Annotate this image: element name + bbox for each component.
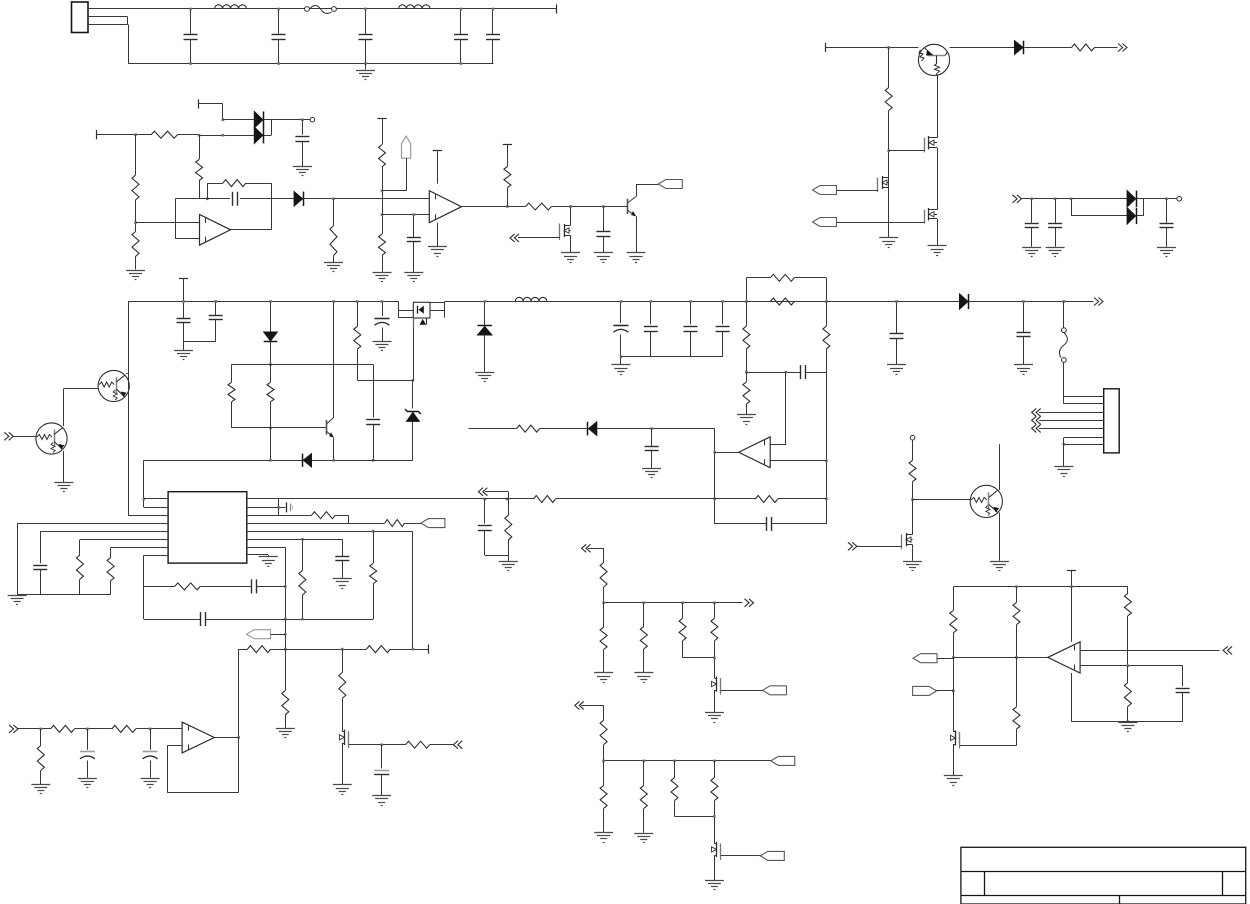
capacitor CX1: [184, 8, 198, 65]
node: [825, 498, 828, 501]
pin4 wire: [17, 524, 168, 595]
resistor R51: [950, 587, 957, 658]
terminal circle: [310, 117, 315, 122]
wire in6a: [1080, 650, 1219, 652]
ground: [594, 833, 613, 843]
node: [86, 728, 89, 731]
resistor R22: [76, 540, 83, 595]
node: [372, 459, 375, 462]
capacitor C28 pol: [80, 729, 95, 778]
wire: [778, 498, 827, 500]
wire: [552, 206, 623, 208]
wire bottom rail: [128, 63, 493, 65]
node: [650, 427, 653, 430]
capacitor C20: [716, 300, 730, 357]
pin wire: [1039, 412, 1104, 414]
wire: [950, 47, 1015, 49]
wire gndbus: [17, 594, 111, 596]
chevron out: [745, 599, 754, 607]
wire link2: [1137, 199, 1144, 216]
capacitor C18: [644, 300, 658, 357]
wire: [825, 47, 918, 49]
ground: [428, 247, 447, 257]
wire: [715, 498, 756, 500]
resistor R32: [51, 725, 75, 732]
wire inv2: [382, 214, 430, 216]
node: [380, 743, 383, 746]
node: [825, 460, 828, 463]
resistor R48: [671, 761, 714, 817]
capacitor C8: [407, 213, 421, 272]
capacitor C32: [1176, 689, 1190, 722]
wire: [135, 200, 137, 232]
wire: [826, 372, 828, 524]
wire bot6: [1072, 721, 1183, 723]
wire: [74, 728, 111, 730]
capacitor C15: [366, 365, 380, 461]
node: [1015, 585, 1018, 588]
ground: [903, 562, 922, 571]
transistor Q4 npn: [622, 184, 637, 252]
wire gate: [518, 237, 560, 239]
ground: [31, 785, 50, 794]
wire vplus: [437, 150, 439, 183]
node: [341, 648, 344, 651]
ground: [1014, 365, 1033, 375]
resistor R43: [679, 603, 714, 658]
pin12 wire: [247, 531, 413, 649]
chevron in: [1013, 195, 1022, 203]
chevron in: [9, 725, 18, 733]
pin9 wire: [247, 554, 268, 556]
wire out: [231, 229, 272, 231]
wire: [837, 222, 925, 224]
node: [332, 198, 335, 201]
pin wire: [1039, 428, 1104, 430]
wire: [857, 546, 902, 548]
diode D8 left: [588, 422, 597, 436]
ground: [634, 834, 653, 843]
ground: [879, 238, 898, 248]
wire capjoin: [184, 342, 216, 350]
wire: [714, 693, 716, 712]
capacitor C26: [252, 579, 257, 593]
node: [713, 815, 716, 818]
node: [284, 618, 287, 621]
wire: [912, 548, 914, 561]
ground: [404, 273, 423, 282]
mosfet M5 switch: [399, 302, 445, 381]
ground: [705, 713, 724, 723]
wire: [588, 548, 604, 562]
wire main rail left: [128, 301, 399, 303]
pin wire: [1064, 437, 1104, 439]
diode D2: [294, 192, 303, 206]
op-amp U3: [739, 437, 771, 468]
capacitor C25: [335, 557, 349, 579]
node: [673, 760, 676, 763]
node: [713, 602, 716, 605]
resistor R14: [267, 365, 274, 428]
node: [887, 150, 890, 153]
wire capbus: [621, 356, 723, 358]
wire emit: [999, 513, 1001, 561]
resistor R16: [770, 274, 794, 281]
tick top: [377, 118, 386, 120]
node: [1070, 585, 1073, 588]
node: [713, 760, 716, 763]
mosfet M10: [951, 729, 960, 749]
node: [569, 205, 572, 208]
wire: [302, 539, 342, 556]
wire fb mid: [175, 198, 271, 200]
capacitor C34: [1017, 300, 1031, 364]
ground: [372, 796, 391, 806]
wire: [636, 184, 658, 186]
resistor R30: [366, 646, 390, 653]
wire: [540, 428, 589, 430]
node: [269, 363, 272, 366]
pin3 wire: [128, 515, 168, 517]
node: [269, 427, 272, 430]
node: [713, 451, 716, 454]
capacitor C9: [596, 207, 610, 253]
wire stub: [126, 373, 128, 375]
node: [381, 213, 384, 216]
pin11 wire: [247, 539, 303, 570]
ground: [611, 365, 630, 375]
wire fb top: [207, 183, 271, 199]
wire y618: [144, 619, 373, 621]
node: [134, 221, 137, 224]
wire: [714, 859, 716, 881]
wire out2: [462, 206, 526, 208]
resistor R25: [370, 531, 377, 619]
wire main rail right: [445, 301, 1094, 303]
wire: [937, 222, 939, 246]
ground: [126, 271, 145, 280]
wire: [136, 728, 182, 730]
node: [1070, 198, 1073, 201]
mosfet M9: [902, 531, 913, 549]
ground: [627, 253, 646, 263]
node: [506, 205, 509, 208]
node: [284, 585, 287, 588]
resistor R52: [1013, 587, 1020, 658]
wire gate6: [349, 744, 406, 746]
wire: [1025, 47, 1072, 49]
ground: [373, 273, 392, 282]
resistor R54: [1124, 587, 1131, 666]
pin8 wire: [144, 555, 169, 619]
wire N line (double): [88, 17, 128, 25]
ground: [642, 469, 661, 478]
capacitor C6: [295, 120, 309, 166]
wire: [135, 257, 137, 270]
node: [484, 498, 487, 501]
wire: [597, 428, 715, 430]
IC U4: [168, 492, 247, 563]
resistor R2: [132, 135, 139, 200]
mosfet M8: [712, 840, 721, 860]
wire jog: [348, 515, 350, 523]
chevron: [1032, 424, 1041, 432]
ground: [54, 483, 73, 492]
wire: [485, 492, 509, 500]
node: [301, 118, 304, 121]
wire: [570, 239, 572, 253]
wire: [714, 429, 716, 524]
node: [825, 300, 828, 303]
net flag: [421, 519, 445, 528]
wire: [469, 428, 517, 430]
resistor R55: [1124, 666, 1131, 722]
diode D1b: [254, 127, 263, 143]
wire: [430, 744, 454, 746]
resistor R46: [600, 761, 607, 832]
net flag: [813, 218, 837, 227]
wire inv: [175, 199, 199, 239]
wire sense box: [746, 278, 826, 302]
resistor R24: [299, 570, 306, 619]
capacitor C12: [1160, 199, 1174, 247]
pin16 wire: [247, 498, 485, 500]
resistor R12: [1072, 44, 1095, 51]
wire: [785, 372, 787, 445]
node: [602, 760, 605, 763]
chevron: [478, 488, 487, 496]
terminal tick: [428, 645, 430, 654]
op-amp U5: [182, 722, 214, 753]
wire coll2: [64, 389, 99, 427]
terminal circle: [1177, 197, 1182, 202]
ground: [1054, 467, 1073, 477]
node: [1165, 198, 1168, 201]
transistor Q6 npn: [326, 300, 335, 460]
capacitor C33: [890, 300, 904, 364]
net flag: [658, 180, 682, 189]
resistor R29: [248, 646, 271, 653]
wire: [581, 705, 603, 720]
chevron: [1032, 408, 1041, 416]
wire fb net: [168, 649, 239, 793]
ground: [324, 263, 343, 272]
ground: [475, 373, 494, 382]
capacitor C17 pol: [613, 300, 628, 364]
mosfet M3: [925, 151, 938, 224]
chevron out: [1094, 298, 1103, 306]
mosfet M6: [339, 728, 348, 748]
ground: [887, 365, 906, 375]
wire: [837, 190, 878, 192]
tick vplus: [433, 150, 442, 152]
pin1 wire: [144, 498, 168, 500]
pin7 wire: [111, 547, 169, 549]
fuse F1: [305, 6, 337, 14]
ground: [78, 779, 97, 788]
wire gate2: [889, 150, 925, 152]
capacitor CY1: [359, 8, 373, 65]
node: [237, 736, 240, 739]
node: [301, 618, 304, 621]
inductor LF2: [399, 5, 431, 9]
node: [149, 728, 152, 731]
pin wire: [1063, 443, 1104, 446]
wire y648: [239, 649, 429, 651]
capacitor CX3: [454, 8, 468, 65]
node: [134, 133, 137, 136]
resistor R18: [743, 302, 750, 373]
wire: [97, 134, 152, 136]
transistor Q3 opto npn: [970, 485, 1002, 517]
capacitor C16 pol: [375, 300, 390, 341]
diode D7 up: [478, 300, 492, 372]
ground: [293, 167, 312, 176]
wire: [405, 523, 421, 525]
node: [1015, 656, 1018, 659]
diode D4b: [1127, 208, 1136, 224]
capacitor C7: [233, 192, 238, 206]
resistor R20: [823, 302, 830, 373]
wire: [953, 747, 955, 775]
resistor R15: [354, 300, 361, 380]
tick: [179, 278, 188, 280]
chevron: [582, 544, 591, 552]
resistor R4: [196, 135, 203, 180]
resistor R35: [339, 649, 346, 728]
resistor R17: [770, 298, 794, 305]
resistor R45: [600, 720, 607, 761]
op-amp U6: [1048, 642, 1080, 673]
node: [745, 371, 748, 374]
resistor R21: [517, 425, 540, 432]
resistor R5: [223, 180, 246, 187]
node: [222, 134, 225, 137]
wire jog2: [277, 499, 280, 515]
wire: [270, 428, 272, 460]
resistor R28: [175, 583, 201, 590]
node: [206, 198, 209, 201]
ground: [174, 351, 193, 360]
net flag: [913, 686, 937, 695]
chevron in: [4, 432, 13, 440]
wire: [223, 119, 254, 121]
wire: [342, 747, 344, 785]
wire: [888, 111, 890, 238]
wire: [333, 256, 335, 263]
wire N drop: [128, 25, 130, 64]
transistor Q5 pnp digital: [918, 44, 949, 75]
node: [412, 648, 415, 651]
wire return rail: [144, 460, 413, 462]
wire diff: [746, 372, 826, 374]
node: [198, 134, 201, 137]
wire: [199, 103, 223, 105]
wire: [264, 119, 311, 121]
resistor R6: [330, 199, 337, 256]
node: [713, 498, 716, 501]
wire: [912, 500, 914, 532]
terminal tick: [556, 4, 558, 13]
node: [506, 498, 509, 501]
chevron in: [510, 234, 519, 242]
wire: [937, 658, 953, 660]
resistor R47: [640, 761, 647, 833]
resistor R36: [406, 741, 430, 748]
wire: [143, 460, 145, 507]
wire mid: [953, 657, 1048, 659]
diode D1a: [254, 112, 263, 128]
wire: [913, 499, 971, 501]
capacitor C11: [1048, 199, 1062, 247]
ground: [944, 776, 963, 786]
wire gate8: [721, 855, 761, 857]
ground: [928, 246, 947, 256]
resistor R39: [505, 499, 512, 561]
resistor R27: [312, 512, 336, 519]
resistor R19: [743, 372, 750, 414]
wire emit2: [63, 451, 65, 482]
wire: [556, 498, 715, 500]
wire y586: [144, 586, 285, 588]
op-amp U1: [200, 215, 231, 246]
diode D9: [960, 294, 969, 309]
capacitor C21: [801, 365, 806, 379]
wire: [13, 436, 36, 438]
node: [284, 633, 287, 636]
pin6 wire: [80, 539, 168, 541]
node: [952, 656, 955, 659]
wire: [1137, 198, 1177, 200]
wire: [222, 104, 224, 120]
capacitor C29 pol: [143, 729, 158, 778]
node: [745, 300, 748, 303]
wire in3b: [770, 460, 826, 462]
resistor R34: [37, 729, 44, 784]
node: [381, 190, 384, 193]
ground: [594, 673, 613, 683]
node: [681, 602, 684, 605]
ground: [8, 596, 27, 605]
chevron out: [1118, 44, 1127, 52]
node: [887, 46, 890, 49]
chevron: [848, 542, 857, 550]
resistor R11: [885, 48, 892, 111]
wire y760: [604, 760, 771, 762]
capacitor C13: [177, 278, 191, 342]
capacitor C14: [209, 300, 223, 342]
resistor R41: [600, 603, 607, 673]
node: [332, 459, 335, 462]
resistor R44: [711, 603, 718, 675]
wire: [382, 255, 384, 272]
wire y602: [604, 602, 743, 604]
ground: [737, 415, 756, 425]
chevron: [1223, 646, 1232, 654]
node: [602, 205, 605, 208]
resistor R40: [600, 562, 607, 602]
pin2 wire: [144, 507, 168, 509]
ground: [276, 729, 295, 738]
testpoint flag TP1: [402, 136, 411, 158]
node: [602, 602, 605, 605]
wire noninv: [136, 222, 200, 224]
wire in6b: [1080, 666, 1183, 687]
pin wire: [1039, 420, 1104, 422]
tick: [503, 144, 512, 146]
wire: [271, 198, 294, 200]
wire: [1022, 198, 1128, 200]
